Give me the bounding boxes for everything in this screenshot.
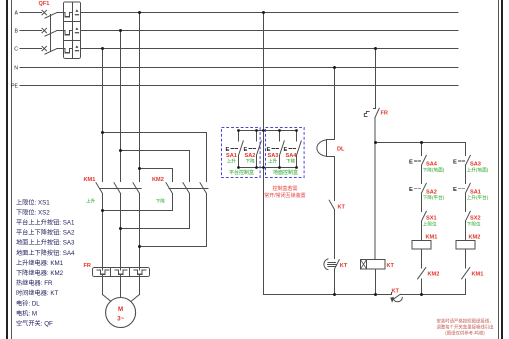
- svg-text:热继电器: FR: 热继电器: FR: [16, 279, 53, 287]
- svg-text:FR: FR: [381, 111, 388, 117]
- svg-text:KM1: KM1: [426, 234, 438, 240]
- svg-text:控制盒若需: 控制盒若需: [272, 185, 297, 192]
- svg-text:E: E: [409, 159, 413, 165]
- svg-text:KM2: KM2: [428, 272, 440, 278]
- svg-text:下降: 下降: [156, 197, 166, 204]
- svg-text:E: E: [284, 147, 288, 153]
- svg-text:上升: 上升: [86, 197, 96, 204]
- svg-text:E: E: [453, 187, 457, 193]
- svg-text:常开/常闭互锁装置: 常开/常闭互锁装置: [264, 192, 305, 199]
- svg-text:KT: KT: [387, 263, 395, 269]
- svg-text:电铃: DL: 电铃: DL: [16, 299, 40, 307]
- svg-text:时间继电器: KT: 时间继电器: KT: [16, 289, 59, 297]
- svg-text:PE: PE: [11, 84, 18, 90]
- svg-text:上升继电器: KM1: 上升继电器: KM1: [16, 259, 64, 267]
- svg-text:DL: DL: [337, 147, 345, 153]
- svg-text:上限位: XS1: 上限位: XS1: [16, 198, 50, 206]
- svg-text:平台上下降按钮: SA2: 平台上下降按钮: SA2: [16, 229, 75, 237]
- svg-text:上升: 上升: [227, 157, 237, 164]
- svg-text:地面上下降按钮: SA4: 地面上下降按钮: SA4: [16, 249, 75, 257]
- svg-text:E: E: [453, 159, 457, 165]
- svg-text:SX1: SX1: [426, 216, 437, 222]
- svg-text:B: B: [15, 29, 19, 35]
- svg-text:KT: KT: [392, 289, 400, 295]
- svg-text:KT: KT: [338, 205, 346, 211]
- svg-text:地面控制盒: 地面控制盒: [273, 169, 298, 176]
- svg-text:E: E: [244, 147, 248, 153]
- svg-text:3~: 3~: [117, 316, 124, 323]
- svg-text:KM2: KM2: [152, 177, 164, 183]
- svg-text:电机: M: 电机: M: [16, 309, 37, 317]
- svg-text:E: E: [409, 187, 413, 193]
- svg-text:N: N: [14, 66, 18, 72]
- svg-text:上升(平台): 上升(平台): [467, 194, 489, 201]
- svg-text:上限位: 上限位: [423, 221, 437, 228]
- svg-text:平台上上升按钮: SA1: 平台上上升按钮: SA1: [16, 219, 75, 227]
- svg-text:(图纸仅供参考-鸣谢): (图纸仅供参考-鸣谢): [445, 330, 485, 337]
- svg-text:KM2: KM2: [469, 234, 481, 240]
- svg-text:调整每个开关盒里接噪线引出: 调整每个开关盒里接噪线引出: [436, 324, 493, 331]
- svg-text:KT: KT: [340, 263, 348, 269]
- svg-text:下降: 下降: [246, 157, 256, 164]
- svg-text:KM1: KM1: [472, 272, 484, 278]
- svg-text:下限位: XS2: 下限位: XS2: [16, 208, 50, 216]
- svg-text:QF1: QF1: [39, 1, 50, 7]
- svg-text:下降: 下降: [286, 157, 296, 164]
- svg-text:安装时请严格按照图纸接线，: 安装时请严格按照图纸接线，: [436, 318, 493, 325]
- svg-text:E: E: [226, 147, 230, 153]
- svg-text:空气开关: QF: 空气开关: QF: [16, 320, 53, 328]
- svg-text:下降继电器: KM2: 下降继电器: KM2: [16, 269, 64, 277]
- svg-text:下降(地面): 下降(地面): [423, 166, 445, 173]
- svg-text:M: M: [118, 306, 123, 313]
- svg-text:下限位: 下限位: [467, 221, 481, 228]
- svg-text:平台控制盒: 平台控制盒: [229, 169, 254, 176]
- svg-text:FR: FR: [84, 263, 91, 269]
- svg-text:上升(地面): 上升(地面): [467, 166, 489, 173]
- svg-text:SX2: SX2: [470, 216, 481, 222]
- svg-text:KM1: KM1: [84, 177, 96, 183]
- svg-text:E: E: [267, 147, 271, 153]
- svg-text:上升: 上升: [268, 157, 278, 164]
- svg-text:地面上上升按钮: SA3: 地面上上升按钮: SA3: [16, 239, 75, 247]
- svg-text:下降(平台): 下降(平台): [423, 194, 445, 201]
- svg-text:C: C: [14, 47, 18, 53]
- svg-text:A: A: [15, 11, 19, 17]
